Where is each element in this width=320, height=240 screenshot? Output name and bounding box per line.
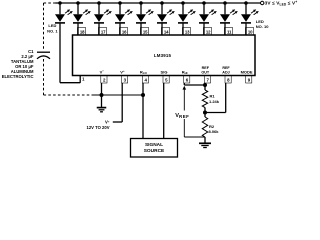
pin 12 xyxy=(203,28,211,36)
LED D4 xyxy=(118,1,122,5)
LED D8 xyxy=(202,1,206,5)
wire LED6 to pin 14 xyxy=(161,23,163,35)
pin 3 xyxy=(122,76,128,84)
terminal V_LED supply xyxy=(261,1,264,4)
svg-text:16: 16 xyxy=(122,29,127,34)
pin 15 xyxy=(140,28,148,36)
svg-text:10: 10 xyxy=(248,29,253,34)
pin 10 xyxy=(245,28,253,36)
svg-text:LM3915: LM3915 xyxy=(154,53,172,58)
wire LED4 to pin 16 xyxy=(119,23,121,35)
LED D1 (LED NO. 1) xyxy=(58,1,62,5)
pin 2 xyxy=(101,76,107,84)
svg-text:ADJ: ADJ xyxy=(222,70,229,74)
LED D2 xyxy=(76,1,80,5)
resistor R1 xyxy=(202,90,207,108)
pin 16 xyxy=(119,28,127,36)
pin 1 xyxy=(79,76,81,83)
pin 13 xyxy=(182,28,190,36)
wire ground bus solid xyxy=(94,94,143,96)
LED D10 xyxy=(244,1,248,5)
LED D3 xyxy=(97,1,101,5)
svg-text:12V TO 20V: 12V TO 20V xyxy=(87,125,110,130)
pin 4 xyxy=(142,76,148,84)
wire LED10 to pin 10 xyxy=(245,23,247,35)
svg-text:SOURCE: SOURCE xyxy=(144,148,165,154)
svg-text:MODE: MODE xyxy=(241,69,253,74)
wire pin7 REF OUT xyxy=(204,83,206,90)
capacitor C1 xyxy=(37,51,50,53)
LED D6 xyxy=(160,1,164,5)
wire pin4 R_LO to ground bus and signal source xyxy=(142,83,144,139)
wire pin5 SIG to signal source xyxy=(163,83,165,139)
wire LED7 to pin 13 xyxy=(182,23,184,35)
wire pin8 REF ADJ to divider node xyxy=(225,83,227,113)
svg-text:NO. 1: NO. 1 xyxy=(47,28,58,33)
svg-text:8.06k: 8.06k xyxy=(209,129,220,134)
svg-text:18: 18 xyxy=(80,29,85,34)
wire LED8 to pin 12 xyxy=(203,23,205,35)
LED D5 xyxy=(139,1,143,5)
wire pin3 V+ supply lead xyxy=(121,83,123,122)
pin 6 xyxy=(184,76,190,84)
svg-text:13: 13 xyxy=(185,29,190,34)
pin 7 xyxy=(204,76,210,84)
node junction V- / ground xyxy=(100,93,104,97)
pin 8 xyxy=(225,76,231,84)
wire ground bus dashed xyxy=(44,94,95,96)
wire V_LED top rail xyxy=(56,2,261,4)
pin 17 xyxy=(98,28,106,36)
ground symbol right xyxy=(199,142,211,144)
wire LED2 to pin 18 xyxy=(77,23,79,35)
pin 5 xyxy=(163,76,169,84)
svg-text:R1: R1 xyxy=(210,94,216,99)
svg-text:15: 15 xyxy=(143,29,148,34)
signal source box xyxy=(131,139,178,158)
wire LED3 to pin 17 xyxy=(98,23,100,35)
svg-text:OUT: OUT xyxy=(201,70,210,74)
svg-text:ELECTROLYTIC: ELECTROLYTIC xyxy=(2,74,34,79)
op-amp U1 LM3915 body xyxy=(73,35,256,76)
wire LED1 cathode to pin 1 xyxy=(59,23,61,83)
pin 9 xyxy=(246,76,252,84)
svg-text:14: 14 xyxy=(164,29,169,34)
LED D9 xyxy=(223,1,227,5)
label C1 value xyxy=(2,49,34,79)
wire LED5 to pin 15 xyxy=(140,23,142,35)
svg-text:12: 12 xyxy=(206,29,211,34)
svg-text:17: 17 xyxy=(101,29,106,34)
svg-text:1.24k: 1.24k xyxy=(209,99,220,104)
pin 14 xyxy=(161,28,169,36)
svg-text:VREF: VREF xyxy=(175,113,189,119)
wire pin6 R_HI to REF OUT xyxy=(183,83,185,85)
resistor R2 xyxy=(204,113,206,118)
LED D7 xyxy=(181,1,185,5)
node junction REF OUT xyxy=(203,83,207,87)
svg-text:11: 11 xyxy=(227,29,232,34)
ground symbol left xyxy=(101,95,103,107)
svg-text:NO. 10: NO. 10 xyxy=(256,24,269,29)
wire pin2 V- to ground bus xyxy=(101,83,103,95)
svg-text:SIG: SIG xyxy=(161,69,168,74)
pin 18 xyxy=(77,28,85,36)
wire dashed top-left (optional C1 branch) xyxy=(44,2,57,4)
pin 11 xyxy=(224,28,232,36)
node junction R_LO / signal return xyxy=(141,93,145,97)
svg-text:SIGNAL: SIGNAL xyxy=(145,142,163,148)
node junction REF ADJ xyxy=(203,111,207,115)
wire LED9 to pin 11 xyxy=(224,23,226,35)
node V_REF annotation arrow xyxy=(183,86,187,90)
